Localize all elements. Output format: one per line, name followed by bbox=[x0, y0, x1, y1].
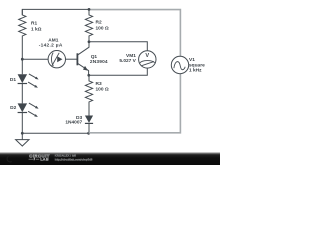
svg-text:V1: V1 bbox=[189, 57, 195, 63]
svg-text:AM1: AM1 bbox=[48, 37, 58, 43]
ammeter AM1 bbox=[39, 37, 66, 68]
node collector junction dot bbox=[88, 40, 91, 43]
svg-text:Q1: Q1 bbox=[91, 54, 98, 60]
svg-text:D2: D2 bbox=[10, 105, 16, 111]
wire left column to D1 bbox=[21, 59, 23, 74]
logo text LAB bbox=[29, 158, 40, 160]
LED D1 bbox=[10, 74, 39, 88]
node emitter junction dot bbox=[87, 74, 90, 77]
wire D1 to D2 bbox=[21, 84, 23, 104]
resistor R1 bbox=[19, 9, 42, 58]
svg-text:1 kHz: 1 kHz bbox=[189, 67, 202, 73]
svg-text:2N3904: 2N3904 bbox=[90, 59, 108, 65]
svg-text:http://circuitlab.com/c/nqr5d8: http://circuitlab.com/c/nqr5d8 bbox=[55, 157, 93, 161]
svg-text:100 Ω: 100 Ω bbox=[96, 87, 109, 93]
svg-text:5.027 V: 5.027 V bbox=[119, 58, 136, 64]
LED D2 bbox=[10, 103, 38, 117]
svg-text:R1: R1 bbox=[31, 21, 37, 27]
svg-text:LAB: LAB bbox=[40, 158, 49, 162]
wire top rail left (node VCC) bbox=[22, 9, 89, 15]
resistor R2 bbox=[85, 9, 108, 41]
logo mark bbox=[7, 156, 12, 162]
wire to ammeter bbox=[22, 58, 48, 60]
wire ammeter to base bbox=[65, 58, 77, 60]
ground bbox=[16, 133, 29, 146]
svg-text:1N4007: 1N4007 bbox=[65, 119, 82, 125]
svg-text:D1: D1 bbox=[10, 77, 16, 83]
svg-text:-142.2 µA: -142.2 µA bbox=[39, 43, 63, 49]
node ground junction dot bbox=[21, 132, 24, 135]
resistor R3 bbox=[85, 75, 108, 115]
svg-text:V: V bbox=[145, 53, 149, 59]
wire collector to voltmeter bbox=[89, 42, 147, 51]
svg-text:100 Ω: 100 Ω bbox=[96, 26, 109, 32]
wire top rail right gray bbox=[89, 10, 180, 57]
watermark bar bbox=[0, 152, 220, 165]
svg-text:R3: R3 bbox=[96, 81, 102, 87]
svg-text:KRISALEX / ld6: KRISALEX / ld6 bbox=[55, 153, 77, 157]
source V1 bbox=[171, 56, 205, 73]
diode D3 bbox=[65, 115, 93, 134]
transistor Q1 bbox=[77, 42, 108, 76]
wire bottom rail gray to V1 bbox=[89, 74, 181, 133]
voltmeter VM1 bbox=[119, 51, 156, 68]
svg-text:R2: R2 bbox=[96, 20, 102, 26]
node base junction dot bbox=[21, 58, 24, 61]
node top junction dot bbox=[88, 8, 91, 11]
wire D2 to ground rail bbox=[21, 113, 23, 134]
svg-text:1 kΩ: 1 kΩ bbox=[31, 27, 42, 33]
wire bottom rail dark bbox=[22, 132, 88, 134]
node D3 rail junction dot bbox=[87, 132, 90, 135]
wire voltmeter bottom to emitter node bbox=[89, 68, 148, 75]
